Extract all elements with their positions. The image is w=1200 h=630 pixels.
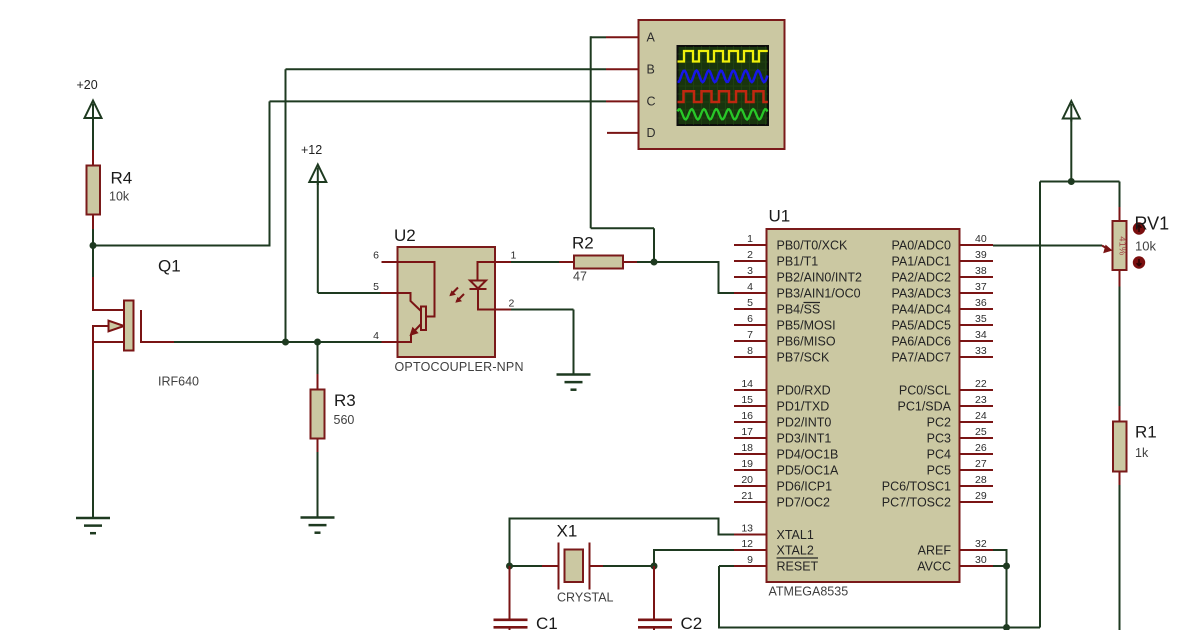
- scope pin B: [606, 63, 655, 77]
- wire AVCC stub: [993, 565, 1007, 567]
- wire gate net: [174, 341, 382, 343]
- U1 pin 9 RESET: [734, 554, 819, 574]
- svg-text:OPTOCOUPLER-NPN: OPTOCOUPLER-NPN: [395, 360, 524, 374]
- svg-text:IRF640: IRF640: [158, 375, 199, 389]
- node R2-scopeA junction: [651, 259, 658, 266]
- potentiometer RV1: [1102, 182, 1169, 289]
- svg-text:CRYSTAL: CRYSTAL: [557, 591, 614, 605]
- svg-text:PB3/AIN1/OC0: PB3/AIN1/OC0: [777, 287, 861, 301]
- svg-text:PA2/ADC2: PA2/ADC2: [891, 271, 951, 285]
- U2 pin 5: [373, 281, 397, 293]
- svg-text:2: 2: [747, 249, 753, 261]
- svg-text:2: 2: [509, 298, 515, 310]
- power +12: [301, 143, 326, 185]
- U1 pin 20 PD6/ICP1: [734, 474, 832, 494]
- U1 pin 25 PC3: [927, 426, 993, 446]
- svg-text:C2: C2: [681, 614, 703, 630]
- wire R4 to drain node: [92, 229, 94, 246]
- svg-text:34: 34: [975, 329, 987, 341]
- U1 pin 22 PC0/SCL: [899, 378, 993, 398]
- svg-text:5: 5: [747, 297, 753, 309]
- svg-text:10k: 10k: [1135, 239, 1156, 254]
- svg-text:20: 20: [741, 474, 753, 486]
- svg-text:22: 22: [975, 378, 987, 390]
- transistor inside U2: [398, 262, 435, 342]
- svg-text:B: B: [647, 63, 655, 77]
- scope screen: [678, 46, 769, 125]
- svg-text:RESET: RESET: [777, 560, 819, 574]
- capacitor C1: [494, 566, 558, 630]
- power +20: [77, 78, 102, 121]
- U1 pin 24 PC2: [927, 410, 993, 430]
- svg-text:C1: C1: [536, 614, 558, 630]
- U1 pin 40 PA0/ADC0: [891, 233, 993, 253]
- U1 pin 12 XTAL2: [734, 538, 814, 558]
- svg-text:PD4/OC1B: PD4/OC1B: [777, 448, 839, 462]
- U1 pin 14 PD0/RXD: [734, 378, 831, 398]
- LED inside U2: [470, 262, 496, 310]
- svg-text:PC0/SCL: PC0/SCL: [899, 384, 951, 398]
- svg-text:PC3: PC3: [927, 432, 951, 446]
- svg-text:ATMEGA8535: ATMEGA8535: [769, 585, 849, 599]
- svg-text:37: 37: [975, 281, 987, 293]
- wire U2 pin2 to ground: [511, 310, 574, 375]
- ground GND1 (Q1 source): [76, 518, 110, 533]
- node bottom junction: [1003, 624, 1010, 630]
- node X1 left junction: [506, 563, 513, 570]
- svg-text:40: 40: [975, 233, 987, 245]
- svg-text:26: 26: [975, 442, 987, 454]
- resistor R4: [87, 150, 133, 231]
- node VCC junction: [1068, 178, 1075, 185]
- wire scope A to R2 node: [591, 36, 654, 262]
- node gate-R3 junction: [314, 339, 321, 346]
- svg-text:33: 33: [975, 345, 987, 357]
- svg-text:X1: X1: [557, 522, 578, 541]
- waveform A yellow: [678, 51, 768, 62]
- svg-text:10k: 10k: [109, 190, 130, 204]
- U2 pin 6: [373, 250, 397, 263]
- svg-text:PB6/MISO: PB6/MISO: [777, 335, 836, 349]
- svg-text:R3: R3: [334, 391, 356, 410]
- resistor R3: [311, 342, 356, 454]
- U1 pin 18 PD4/OC1B: [734, 442, 838, 462]
- U1 pin 30 AVCC: [917, 554, 993, 574]
- svg-text:PB5/MOSI: PB5/MOSI: [777, 319, 836, 333]
- U1 pin 39 PA1/ADC1: [891, 249, 993, 269]
- svg-text:5: 5: [373, 281, 379, 293]
- svg-text:6: 6: [747, 313, 753, 325]
- wire AVCC down: [1006, 566, 1008, 628]
- U1 pin 17 PD3/INT1: [734, 426, 831, 446]
- oscilloscope body: [639, 20, 785, 149]
- node AVCC junction: [1003, 563, 1010, 570]
- svg-text:PA3/ADC3: PA3/ADC3: [891, 287, 951, 301]
- U1 pin 32 AREF: [918, 538, 993, 558]
- U1 pin 28 PC6/TOSC1: [882, 474, 993, 494]
- svg-text:PD3/INT1: PD3/INT1: [777, 432, 832, 446]
- svg-text:32: 32: [975, 538, 987, 550]
- svg-text:15: 15: [741, 394, 753, 406]
- svg-text:PC4: PC4: [927, 448, 951, 462]
- svg-text:41%: 41%: [1117, 236, 1128, 256]
- resistor R2: [559, 234, 639, 284]
- svg-text:27: 27: [975, 458, 987, 470]
- svg-text:38: 38: [975, 265, 987, 277]
- svg-text:PC7/TOSC2: PC7/TOSC2: [882, 496, 951, 510]
- svg-text:XTAL2: XTAL2: [777, 544, 814, 558]
- svg-text:RV1: RV1: [1135, 214, 1170, 234]
- svg-text:AVCC: AVCC: [917, 560, 951, 574]
- svg-text:24: 24: [975, 410, 987, 422]
- svg-text:PA4/ADC4: PA4/ADC4: [891, 303, 951, 317]
- svg-text:PA0/ADC0: PA0/ADC0: [891, 239, 951, 253]
- wire RESET net: [719, 566, 1040, 628]
- svg-text:16: 16: [741, 410, 753, 422]
- wire R1 down: [1119, 485, 1121, 630]
- U1 pin 35 PA5/ADC5: [891, 313, 993, 333]
- svg-text:36: 36: [975, 297, 987, 309]
- wire pin40 to RV1 wiper: [993, 245, 1102, 247]
- U1 pin 33 PA7/ADC7: [891, 345, 993, 365]
- svg-text:R1: R1: [1135, 423, 1157, 442]
- U1 pin 38 PA2/ADC2: [891, 265, 993, 285]
- wire Q1 source to ground: [92, 370, 94, 518]
- crystal X1: [541, 522, 614, 605]
- svg-text:PB7/SCK: PB7/SCK: [777, 351, 830, 365]
- svg-text:23: 23: [975, 394, 987, 406]
- svg-text:Q1: Q1: [158, 257, 181, 276]
- U1 pin 1 PB0/T0/XCK: [734, 233, 848, 253]
- svg-text:35: 35: [975, 313, 987, 325]
- wire XTAL2 net: [654, 550, 734, 566]
- wire VCC rail: [1040, 182, 1120, 628]
- wire drain node to scope C: [93, 101, 606, 246]
- svg-text:28: 28: [975, 474, 987, 486]
- svg-text:47: 47: [573, 270, 587, 284]
- scope pin C: [606, 95, 656, 109]
- svg-text:R4: R4: [111, 169, 133, 188]
- svg-text:19: 19: [741, 458, 753, 470]
- transistor Q1: [92, 244, 199, 389]
- svg-text:+12: +12: [301, 143, 322, 157]
- wire node to U1 pin4: [654, 262, 734, 293]
- svg-text:12: 12: [741, 538, 753, 550]
- U1 pin 2 PB1/T1: [734, 249, 818, 269]
- waveform C red: [678, 91, 768, 102]
- svg-text:6: 6: [373, 250, 379, 262]
- U1 pin 23 PC1/SDA: [898, 394, 994, 414]
- U1 pin 26 PC4: [927, 442, 993, 462]
- node gate-B junction: [282, 339, 289, 346]
- U1 pin 4 PB3/AIN1/OC0: [734, 281, 861, 301]
- svg-text:U2: U2: [394, 226, 416, 245]
- wire +12 to U2 pin5: [318, 182, 381, 293]
- svg-text:39: 39: [975, 249, 987, 261]
- U1 pin 19 PD5/OC1A: [734, 458, 839, 478]
- optocoupler U2 body: [398, 247, 496, 357]
- svg-text:PC5: PC5: [927, 464, 951, 478]
- svg-text:PC6/TOSC1: PC6/TOSC1: [882, 480, 951, 494]
- U1 pin 27 PC5: [927, 458, 993, 478]
- svg-text:+20: +20: [77, 78, 98, 92]
- svg-text:4: 4: [373, 330, 379, 342]
- wire RV1 to R1: [1119, 287, 1121, 409]
- wire +20 to R4: [92, 118, 94, 152]
- U1 pin 3 PB2/AIN0/INT2: [734, 265, 862, 285]
- power VCC right: [1063, 101, 1080, 122]
- svg-text:PA5/ADC5: PA5/ADC5: [891, 319, 951, 333]
- node drain junction: [90, 242, 97, 249]
- wire X1 right: [603, 565, 654, 567]
- U1 pin 34 PA6/ADC6: [891, 329, 993, 349]
- svg-text:A: A: [647, 31, 656, 45]
- svg-text:9: 9: [747, 554, 753, 566]
- svg-text:U1: U1: [769, 207, 791, 226]
- U1 pin 13 XTAL1: [734, 522, 814, 542]
- U2 pin 1: [495, 250, 517, 263]
- svg-text:3: 3: [747, 265, 753, 277]
- capacitor C2: [638, 566, 702, 630]
- svg-text:14: 14: [741, 378, 753, 390]
- svg-text:PB2/AIN0/INT2: PB2/AIN0/INT2: [777, 271, 862, 285]
- ground GND2 (U2 pin2): [557, 375, 591, 390]
- U1 pin 15 PD1/TXD: [734, 394, 829, 414]
- wire R2 to node: [637, 261, 654, 263]
- svg-text:PB4/SS: PB4/SS: [777, 303, 821, 317]
- svg-text:29: 29: [975, 490, 987, 502]
- U1 pin 6 PB5/MOSI: [734, 313, 836, 333]
- svg-text:17: 17: [741, 426, 753, 438]
- svg-text:7: 7: [747, 329, 753, 341]
- resistor R1: [1113, 406, 1157, 487]
- svg-text:PA6/ADC6: PA6/ADC6: [891, 335, 951, 349]
- U1 pin 8 PB7/SCK: [734, 345, 830, 365]
- svg-text:1: 1: [511, 250, 517, 262]
- svg-text:XTAL1: XTAL1: [777, 528, 814, 542]
- svg-text:560: 560: [334, 413, 355, 427]
- svg-text:AREF: AREF: [918, 544, 952, 558]
- svg-text:8: 8: [747, 345, 753, 357]
- svg-text:21: 21: [741, 490, 753, 502]
- svg-text:PD0/RXD: PD0/RXD: [777, 384, 831, 398]
- wire XTAL1 net: [510, 519, 735, 567]
- svg-text:30: 30: [975, 554, 987, 566]
- svg-text:PD1/TXD: PD1/TXD: [777, 400, 830, 414]
- U1 pin 16 PD2/INT0: [734, 410, 831, 430]
- U1 pin 21 PD7/OC2: [734, 490, 830, 510]
- svg-text:PD2/INT0: PD2/INT0: [777, 416, 832, 430]
- svg-text:13: 13: [741, 522, 753, 534]
- svg-text:PB0/T0/XCK: PB0/T0/XCK: [777, 239, 849, 253]
- U1 pin 7 PB6/MISO: [734, 329, 836, 349]
- wire AREF to AVCC: [993, 550, 1007, 566]
- U1 pin 36 PA4/ADC4: [891, 297, 993, 317]
- svg-text:18: 18: [741, 442, 753, 454]
- scope pin D: [607, 126, 656, 140]
- svg-text:PA7/ADC7: PA7/ADC7: [891, 351, 951, 365]
- svg-text:4: 4: [747, 281, 753, 293]
- svg-text:1k: 1k: [1135, 446, 1149, 460]
- wire R3 to ground: [317, 452, 319, 518]
- svg-text:PA1/ADC1: PA1/ADC1: [891, 255, 951, 269]
- wire VCC down: [1070, 118, 1072, 182]
- U2 pin 4: [373, 330, 397, 342]
- waveform D green: [678, 109, 768, 119]
- wire RESET stub: [719, 565, 734, 567]
- wire gate node to scope B: [286, 69, 607, 342]
- svg-text:D: D: [647, 126, 656, 140]
- svg-text:PD7/OC2: PD7/OC2: [777, 496, 831, 510]
- U1 pin 37 PA3/ADC3: [891, 281, 993, 301]
- svg-text:PC2: PC2: [927, 416, 951, 430]
- svg-text:PC1/SDA: PC1/SDA: [898, 400, 952, 414]
- U2 pin 2: [495, 298, 515, 310]
- mcu U1 body: [767, 229, 960, 582]
- svg-text:1: 1: [747, 233, 753, 245]
- wire X1 left: [510, 565, 543, 567]
- wire U2 pin1 to R2: [511, 261, 559, 263]
- light arrows inside U2: [449, 288, 464, 303]
- svg-text:PD5/OC1A: PD5/OC1A: [777, 464, 839, 478]
- svg-text:25: 25: [975, 426, 987, 438]
- svg-text:C: C: [647, 95, 656, 109]
- svg-text:PD6/ICP1: PD6/ICP1: [777, 480, 833, 494]
- node X1 right junction: [651, 563, 658, 570]
- ground GND3 (R3): [301, 518, 335, 533]
- waveform B blue: [678, 71, 768, 83]
- svg-text:PB1/T1: PB1/T1: [777, 255, 819, 269]
- scope pin A: [606, 31, 656, 45]
- U1 pin 5 PB4/SS: [734, 297, 820, 317]
- svg-text:R2: R2: [572, 234, 594, 253]
- U1 pin 29 PC7/TOSC2: [882, 490, 993, 510]
